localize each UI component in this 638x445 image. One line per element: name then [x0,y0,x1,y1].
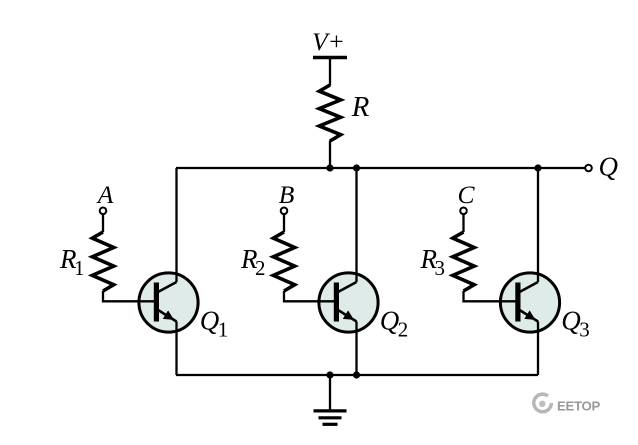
wire V+ bar to resistor R [329,58,331,86]
junction dot Q2 collector / top bus [353,164,360,171]
transistor Q1 [139,273,198,332]
wire top bus (collectors to output) [176,167,585,169]
node B input terminal [281,208,288,215]
wire Q1 emitter to bottom bus [175,322,177,376]
wire Q1 collector to top bus [175,168,177,282]
junction dot Q2 emitter / bottom bus [353,371,360,378]
wire Q3 collector to top bus [537,168,539,282]
junction dot Q3 collector / top bus [534,164,541,171]
svg-text:EETOP: EETOP [557,398,600,413]
transistor Q2 [319,273,378,332]
junction dot R / top bus [326,164,333,171]
node Q output terminal [585,165,592,172]
svg-text:R: R [351,91,370,123]
wire B terminal to resistor R2 [283,214,285,232]
resistor R2 [273,232,294,291]
power rail V+ bar [313,56,347,59]
transistor Q3 [500,273,559,332]
svg-text:Q: Q [599,152,619,182]
svg-text:C: C [457,180,475,209]
wire Q3 emitter to bottom bus [537,322,539,376]
wire C terminal to resistor R3 [462,214,464,232]
resistor R [319,85,340,141]
svg-text:A: A [96,180,114,209]
resistor R1 [92,232,113,291]
wire bottom bus to ground [329,375,331,411]
node C input terminal [460,208,467,215]
svg-text:V+: V+ [312,27,345,56]
wire A terminal to resistor R1 [102,214,104,232]
wire Q2 collector to top bus [355,168,357,282]
junction dot ground tap / bottom bus [326,371,333,378]
wire Q2 emitter to bottom bus [355,322,357,376]
node A input terminal [100,208,107,215]
wire resistor R3 to base of Q3 [464,291,517,301]
wire resistor R2 to base of Q2 [284,291,335,301]
wire resistor R to top bus [329,141,331,169]
ground [314,411,347,424]
wire resistor R1 to base of Q1 [103,291,155,301]
watermark logo EETOP [534,394,552,412]
svg-text:B: B [279,180,295,209]
resistor R3 [453,232,474,291]
wire bottom bus (emitters) [176,374,538,376]
